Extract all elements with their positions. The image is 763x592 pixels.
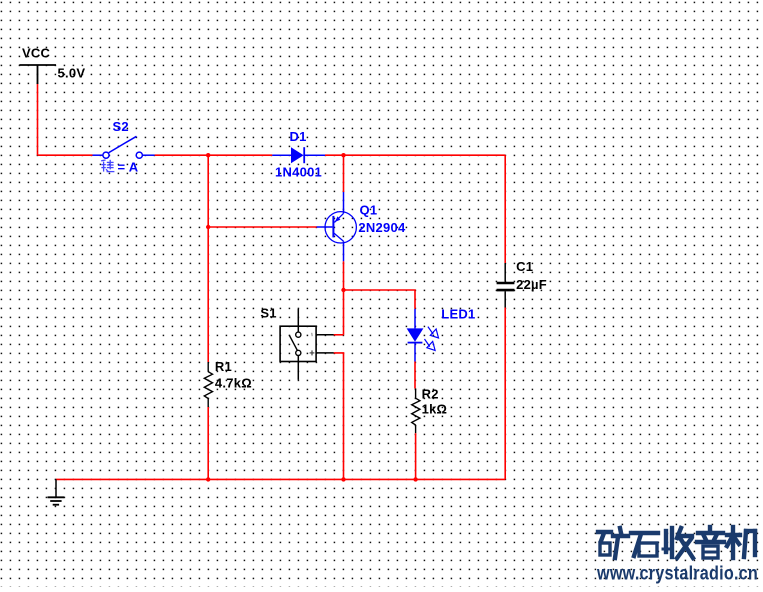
svg-text:= A: = A xyxy=(118,159,139,174)
svg-text:22µF: 22µF xyxy=(516,277,547,292)
svg-text:2N2904: 2N2904 xyxy=(358,220,406,235)
wire Q1 collector down xyxy=(343,261,345,335)
wire D1 to C1 branch xyxy=(325,154,505,156)
char shou xyxy=(663,528,693,558)
resistor R2 xyxy=(412,389,420,434)
svg-text:S2: S2 xyxy=(113,119,129,134)
LED LED1 xyxy=(407,309,439,362)
wire bottom rail xyxy=(56,478,505,480)
svg-text:S1: S1 xyxy=(260,306,276,321)
switch S2 xyxy=(93,136,155,158)
wire LED to R2 xyxy=(414,362,416,389)
wire base to Q1 xyxy=(208,226,317,228)
svg-text:5.0V: 5.0V xyxy=(58,66,86,81)
wire R1 to rail xyxy=(207,407,209,479)
node junction base wire xyxy=(206,225,210,229)
svg-text:R1: R1 xyxy=(215,359,232,374)
wire C1 lower vertical xyxy=(504,308,506,480)
node junction top at R1 branch xyxy=(206,153,210,157)
char shi xyxy=(631,533,658,556)
svg-text:VCC: VCC xyxy=(22,46,51,61)
svg-text:Q1: Q1 xyxy=(360,203,378,218)
wire R1 branch vertical top xyxy=(207,155,209,362)
wire C1 branch vertical xyxy=(504,155,506,263)
svg-text:C1: C1 xyxy=(516,259,533,274)
svg-text:1N4001: 1N4001 xyxy=(275,165,322,180)
wire VCC vertical xyxy=(37,84,39,155)
svg-text:www.crystalradio.cn: www.crystalradio.cn xyxy=(596,564,758,585)
svg-text:D1: D1 xyxy=(290,129,307,144)
ground xyxy=(48,479,65,504)
capacitor C1 xyxy=(497,263,515,308)
watermark 矿石收音机 xyxy=(598,527,755,558)
node junction rail R1 xyxy=(206,477,210,481)
switch S1 xyxy=(280,309,334,380)
wire S2 to D1 xyxy=(155,154,273,156)
char kuang xyxy=(598,528,628,558)
node junction rail R2 xyxy=(413,477,417,481)
svg-text:4.7kΩ: 4.7kΩ xyxy=(215,376,252,391)
diode D1 xyxy=(272,147,325,163)
transistor Q1 xyxy=(317,192,357,261)
svg-text:LED1: LED1 xyxy=(441,306,475,321)
wire S1 lead 1 xyxy=(334,334,344,336)
wire VCC to S2 xyxy=(38,154,93,156)
svg-text:1kΩ: 1kΩ xyxy=(422,402,448,417)
S2 key label 键 = A xyxy=(101,160,114,172)
svg-text:R2: R2 xyxy=(422,386,439,401)
char ji xyxy=(727,527,755,558)
char yin xyxy=(697,527,724,558)
wire junction to LED branch xyxy=(344,290,416,309)
wire R2 to rail xyxy=(415,433,417,479)
wire S1 lead 2 to ground rail xyxy=(334,353,344,480)
node junction collector/LED branch xyxy=(341,288,345,292)
node junction rail S1 branch xyxy=(341,477,345,481)
power VCC symbol xyxy=(19,65,56,84)
node junction top at Q1 branch xyxy=(341,153,345,157)
resistor R1 xyxy=(204,362,212,407)
wire Q1 emitter drop xyxy=(343,155,345,192)
